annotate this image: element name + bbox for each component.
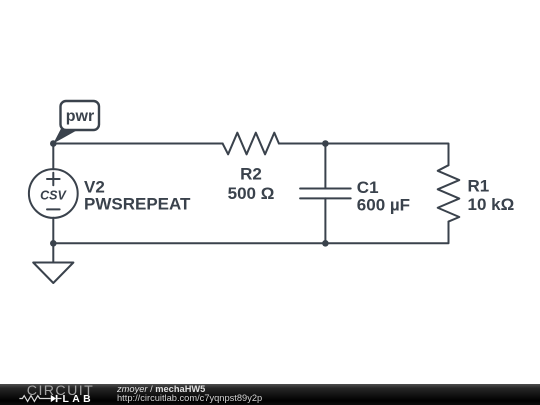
resistor R1 xyxy=(438,165,460,221)
voltage source V2 circle xyxy=(29,169,78,218)
wire ground lead xyxy=(52,243,54,262)
V2 minus sign xyxy=(47,208,60,210)
wire top rail middle (R2 to C1 junction) xyxy=(279,143,326,145)
capacitor C1 top lead xyxy=(324,144,326,189)
wire bottom rail xyxy=(53,222,448,244)
flag pwr tail xyxy=(53,129,77,144)
capacitor C1 bottom lead xyxy=(324,198,326,243)
svg-text:10 kΩ: 10 kΩ xyxy=(468,195,515,214)
credit line 1 xyxy=(117,385,205,395)
svg-text:PWSREPEAT: PWSREPEAT xyxy=(84,194,191,213)
flag pwr bubble xyxy=(61,101,100,130)
ground xyxy=(33,263,73,284)
wire top rail left (node to R2) xyxy=(53,143,222,145)
junction dot ground xyxy=(50,240,57,247)
footer bar xyxy=(0,384,540,405)
V2 plus sign xyxy=(47,178,60,180)
svg-text:500 Ω: 500 Ω xyxy=(228,184,275,203)
logo diode xyxy=(51,395,56,402)
credit line 2 xyxy=(117,394,262,404)
wire top rail right (C1 junction to R1 corner) xyxy=(325,144,448,166)
svg-text:CSV: CSV xyxy=(40,189,67,203)
resistor R2 xyxy=(223,133,279,155)
node dot pwr xyxy=(50,140,57,147)
svg-text:600 µF: 600 µF xyxy=(357,196,410,215)
junction dot bottom C1 xyxy=(322,240,329,247)
svg-text:R2: R2 xyxy=(240,165,262,184)
logo resistor zigzag xyxy=(19,396,50,402)
svg-text:C1: C1 xyxy=(357,178,379,197)
wire V2 top lead xyxy=(52,144,54,170)
capacitor C1 plates xyxy=(300,188,351,190)
junction dot top C1 xyxy=(322,140,329,147)
svg-text:pwr: pwr xyxy=(66,108,94,125)
svg-text:LAB: LAB xyxy=(63,394,95,405)
svg-text:R1: R1 xyxy=(468,177,490,196)
wire V2 bottom lead xyxy=(52,218,54,244)
